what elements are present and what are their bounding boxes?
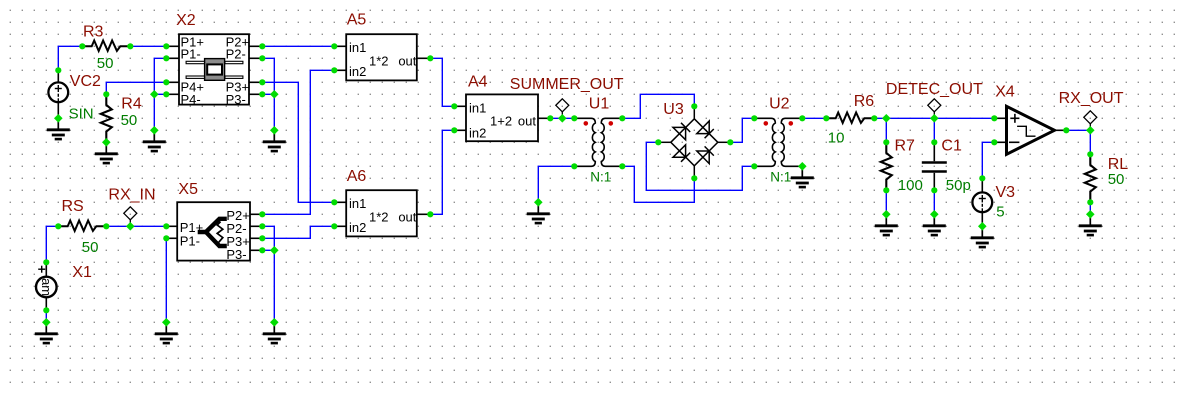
svg-text:P4-: P4- (181, 92, 201, 107)
svg-text:U1: U1 (589, 96, 610, 113)
ground X2 left ground (143, 130, 166, 151)
wire A5 out to A4 in1 (430, 58, 454, 106)
svg-text:RS: RS (62, 198, 84, 215)
node R7 top (883, 139, 889, 145)
node junction P1-/P4- rail (150, 90, 159, 99)
node X2 P4- (163, 91, 169, 97)
node X2 right ground node (270, 126, 279, 135)
svg-text:RX_IN: RX_IN (108, 187, 155, 204)
svg-text:U2: U2 (769, 95, 790, 112)
wire R4 top to X2 P4+ (106, 82, 166, 94)
ground below VC2 (47, 118, 70, 139)
node DETEC_OUT junction (930, 114, 939, 123)
node X5 P1+ (163, 223, 169, 229)
diode U3 upper-right (T to R) (697, 121, 714, 138)
node C1 bottom (931, 187, 937, 193)
node R7 bottom (883, 187, 889, 193)
VC2 plus sign and axis dashes (55, 85, 62, 101)
wire X5 P2+ to A5 in2 (262, 70, 334, 214)
svg-text:RX_OUT: RX_OUT (1059, 90, 1124, 107)
svg-text:X2: X2 (176, 12, 196, 29)
node X4 plus in (991, 115, 997, 121)
resistor R3 (82, 41, 130, 51)
ground U2 secondary return (791, 166, 814, 187)
svg-text:V3: V3 (996, 184, 1016, 201)
diode bridge U3 leads (658, 106, 730, 178)
wire RL bottom to ground (1089, 202, 1091, 214)
svg-text:50p: 50p (946, 177, 971, 194)
transformer U2 right winding (781, 118, 802, 166)
transformer U1 phase dots (584, 121, 589, 126)
svg-text:X1: X1 (72, 264, 92, 281)
node U2 sec+ pin (799, 115, 805, 121)
transformer U1 right winding (601, 118, 622, 166)
node RX_OUT junction (1086, 126, 1095, 135)
transformer U2 left winding (754, 118, 775, 166)
probe DETEC_OUT (928, 99, 941, 119)
node R7 tap junction (882, 114, 891, 123)
capacitor C1 (922, 142, 947, 190)
X1 plus sign (38, 266, 45, 273)
wire X2 P4- to ground rail (154, 93, 166, 95)
wire U1 primary- to ground (538, 166, 574, 202)
svg-text:R6: R6 (854, 93, 875, 110)
ground X5 right ground (263, 322, 286, 343)
node RX_IN junction (126, 222, 135, 231)
wire R7 bottom to ground (885, 190, 887, 214)
wire RX_OUT node to RL top (1089, 130, 1091, 154)
transformer U2 phase dots (764, 121, 769, 126)
node V3 ground node (978, 222, 987, 231)
node V3 top (979, 175, 985, 181)
node X2 P1+ (163, 43, 169, 49)
svg-text:C1: C1 (941, 138, 962, 155)
ground below U1 return (527, 202, 550, 223)
wire X2 P2+ to A5 in1 (262, 45, 334, 47)
wire X4 out to RX_OUT node (1066, 129, 1090, 131)
ground X2 right ground (263, 130, 286, 151)
node X2 P4+ (163, 79, 169, 85)
node RS left (55, 223, 61, 229)
node A5 in1 (331, 43, 337, 49)
node U3 right (727, 139, 733, 145)
resistor R7 (881, 142, 892, 190)
node R6 left (823, 115, 829, 121)
svg-text:100: 100 (898, 177, 923, 194)
node A6 in1 (331, 199, 337, 205)
resistor R6 (826, 113, 874, 123)
ground below C1 (923, 214, 946, 235)
wire R3 right to X2 P1+ (130, 45, 166, 47)
svg-text:SUMMER_OUT: SUMMER_OUT (510, 76, 624, 93)
wire rail to R7 top (885, 118, 887, 142)
svg-text:1*2: 1*2 (369, 54, 389, 69)
ground X5 left ground (155, 322, 178, 343)
node U2 ground node (798, 162, 807, 171)
svg-text:am: am (39, 278, 54, 296)
X4 step glyph (1017, 126, 1035, 136)
wire U1 sec- to U3 bottom (622, 166, 694, 202)
svg-text:P1-: P1- (180, 233, 200, 248)
A6 port labels (349, 196, 417, 235)
node R3 left (79, 43, 85, 49)
diode bridge U3 diamond (671, 119, 718, 166)
ground below R7 (875, 214, 898, 235)
node junction X5 P2-/P3- rail (270, 246, 279, 255)
node U3 left (655, 139, 661, 145)
wire X2 P3+ to A6 in1 (262, 82, 334, 202)
node A6 out (427, 211, 433, 217)
wire X1 top to RS left (46, 226, 58, 262)
wire V3 to X4 minus input (982, 142, 994, 178)
svg-text:N:1: N:1 (590, 169, 611, 184)
wire X5 P2- to ground rail (262, 226, 274, 322)
node X5 P3- (259, 247, 265, 253)
node X4 minus in (991, 139, 997, 145)
block A4 box (466, 94, 538, 141)
X4 plus input mark (1010, 114, 1019, 123)
svg-text:P1-: P1- (181, 47, 201, 62)
svg-text:50: 50 (82, 239, 99, 256)
ground below RL (1079, 214, 1102, 235)
node X5 right ground node (270, 318, 279, 327)
subcircuit X5 box (177, 202, 250, 260)
svg-text:X5: X5 (178, 181, 198, 198)
svg-text:1+2: 1+2 (490, 114, 512, 129)
node X2 P2+ (259, 43, 265, 49)
node VC2 ground node (54, 114, 63, 123)
ground below X1 (35, 322, 58, 343)
voltage source V3 terminal stubs (981, 178, 983, 226)
node U1 sec- (619, 163, 625, 169)
svg-text:in2: in2 (349, 220, 366, 235)
svg-text:50: 50 (97, 55, 114, 72)
block A6 box (346, 190, 417, 236)
svg-text:10: 10 (828, 130, 845, 147)
wire rail to C1 top (933, 118, 935, 142)
wire X5 P3+ to A6 in2 (262, 226, 334, 238)
svg-text:in1: in1 (469, 100, 486, 115)
svg-text:R4: R4 (121, 95, 142, 112)
comparator X4 triangle (1007, 106, 1055, 154)
svg-text:U3: U3 (663, 101, 684, 118)
svg-text:5: 5 (996, 204, 1004, 221)
node VC2 top (55, 67, 61, 73)
svg-text:50: 50 (121, 112, 138, 129)
node A5 out (427, 55, 433, 61)
ground below R4 (95, 142, 118, 163)
svg-text:R7: R7 (895, 138, 916, 155)
svg-text:DETEC_OUT: DETEC_OUT (886, 81, 983, 98)
V3 plus sign and axis dashes (979, 195, 986, 211)
resistor RS (58, 221, 106, 231)
node A4 in2 (451, 127, 457, 133)
node U1 ground node (534, 198, 543, 207)
svg-text:1*2: 1*2 (369, 210, 389, 225)
ground below V3 (971, 226, 994, 247)
wire U1 sec+ to U3 top (622, 94, 694, 118)
wire U3 left to U2 prim- (646, 142, 754, 190)
node RL top (1087, 151, 1093, 157)
svg-text:SIN: SIN (69, 106, 94, 123)
svg-text:in1: in1 (349, 196, 366, 211)
node R3 right (127, 43, 133, 49)
svg-text:A4: A4 (468, 73, 488, 90)
node X4 out (1063, 127, 1069, 133)
A5 port labels (349, 40, 417, 79)
svg-text:R3: R3 (83, 24, 104, 41)
node U1 sec+ (619, 115, 625, 121)
wire X2 P3- to ground rail right (262, 93, 274, 95)
node U3 top (691, 103, 697, 109)
wire X5 P1- to ground (165, 238, 167, 322)
node X1 top (43, 259, 49, 265)
node R4 top (103, 91, 109, 97)
node U1 pri+ (571, 115, 577, 121)
node RL ground node (1086, 210, 1095, 219)
transformer U1 left winding (574, 118, 595, 166)
wire U3 right to U2 prim+ (730, 118, 754, 142)
probe SUMMER_OUT (556, 99, 569, 119)
wire A4 out to U1 primary+ (550, 117, 574, 119)
probe RX_OUT (1084, 111, 1097, 131)
diode U3 lower-left (L to B) (673, 145, 690, 162)
svg-text:in2: in2 (349, 64, 366, 79)
svg-text:A6: A6 (347, 168, 367, 185)
wire X2 P2- to ground rail right (262, 58, 274, 130)
probe RX_IN (124, 207, 137, 227)
A6 pin stubs (334, 202, 430, 226)
subcircuit X2 box (179, 34, 249, 104)
node R7 ground node (882, 210, 891, 219)
node X5 P3+ (259, 235, 265, 241)
node U2 pri+ (751, 115, 757, 121)
node C1 top (931, 139, 937, 145)
X2 port labels (181, 35, 250, 107)
A5 pin stubs (334, 46, 430, 70)
node junction P2-/P3- rail (270, 90, 279, 99)
X5 splitter icon (198, 219, 227, 246)
svg-text:N:1: N:1 (770, 169, 791, 184)
node A4 out (547, 115, 553, 121)
svg-text:out: out (398, 210, 416, 225)
node U1 pri- (571, 163, 577, 169)
node X2 P1- (163, 55, 169, 61)
wire X5 P3- to ground rail (262, 249, 274, 251)
wire R6 to X4 plus input rail (874, 117, 994, 119)
svg-text:A5: A5 (347, 12, 367, 29)
node X2 P3- (259, 91, 265, 97)
node U3 bottom (691, 175, 697, 181)
block A5 box (346, 34, 417, 80)
resistor RL (1085, 154, 1096, 202)
node X2 P3+ (259, 79, 265, 85)
X2 pin stubs (166, 46, 262, 94)
node R4 ground node (102, 138, 111, 147)
X5 port labels (180, 208, 250, 262)
svg-text:VC2: VC2 (70, 73, 101, 90)
voltage source V3 body (972, 192, 992, 212)
node A5 in2 (331, 67, 337, 73)
voltage source VC2 terminal stubs (57, 70, 59, 118)
wire RS right to X5 P1+ (106, 225, 166, 227)
wire VC2 top to R3 left (58, 46, 82, 70)
diode U3 upper-left (L to T) (673, 123, 690, 140)
source X1 terminal stubs (45, 262, 47, 310)
X5 pin stubs (166, 214, 262, 250)
node RL bottom (1087, 199, 1093, 205)
source X1 body (36, 277, 57, 298)
node A6 in2 (331, 223, 337, 229)
wire C1 bottom to ground (933, 190, 935, 214)
X2 transmission line icon (186, 59, 243, 81)
node X5 P2+ (259, 211, 265, 217)
node C1 ground node (930, 210, 939, 219)
X4 minus input mark (1009, 141, 1019, 143)
resistor R4 (101, 94, 112, 142)
node A4 in1 (451, 103, 457, 109)
svg-text:out: out (518, 114, 536, 129)
node U2 pri- (751, 163, 757, 169)
node X2 left ground node (150, 126, 159, 135)
wire U2 sec+ to R6 (802, 117, 826, 119)
node X1 ground node (42, 318, 51, 327)
wire A6 out to A4 in2 (430, 130, 454, 214)
svg-text:in1: in1 (349, 40, 366, 55)
svg-text:P3-: P3- (226, 247, 246, 262)
svg-text:P3-: P3- (226, 92, 246, 107)
node X1 bottom (43, 307, 49, 313)
comparator X4 pin stubs (994, 118, 1066, 142)
node X5 P1- (163, 235, 169, 241)
voltage source VC2 body (48, 82, 68, 102)
node X2 P2- (259, 55, 265, 61)
svg-text:50: 50 (1108, 171, 1125, 188)
svg-text:X4: X4 (995, 84, 1015, 101)
node SUMMER_OUT junction (558, 114, 567, 123)
node R6 right (871, 115, 877, 121)
A4 pin stubs (454, 106, 550, 130)
wire X1 bottom to ground (45, 310, 47, 322)
node RS right (103, 223, 109, 229)
svg-text:out: out (398, 54, 416, 69)
wire X2 P1- to ground rail (154, 58, 166, 130)
A4 port labels (469, 100, 536, 140)
svg-text:P2-: P2- (226, 47, 246, 62)
node X5 left ground node (162, 318, 171, 327)
svg-text:in2: in2 (469, 125, 486, 140)
diode U3 lower-right (B to R) (697, 146, 714, 163)
node X5 P2- (259, 223, 265, 229)
